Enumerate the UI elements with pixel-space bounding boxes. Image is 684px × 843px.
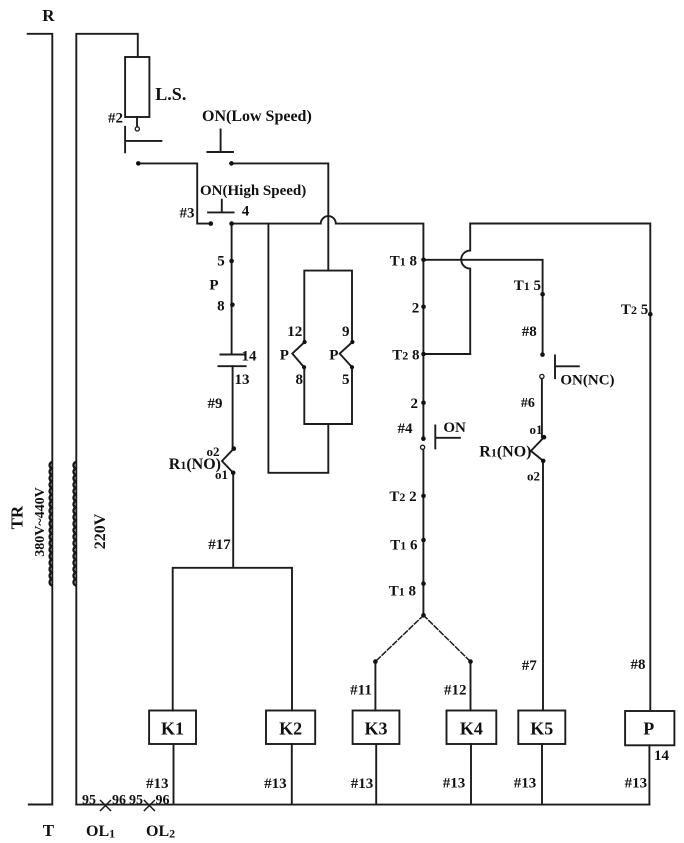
svg-text:P: P [329,348,338,364]
svg-text:8: 8 [295,372,303,388]
svg-text:TR: TR [8,505,27,529]
svg-text:T1 6: T1 6 [390,538,418,554]
svg-text:ON(NC): ON(NC) [560,373,614,389]
svg-text:220V: 220V [92,513,109,549]
svg-text:T1 8: T1 8 [389,584,416,600]
svg-text:R1(NO): R1(NO) [479,444,531,461]
svg-text:14: 14 [242,349,258,365]
svg-text:#8: #8 [631,657,646,673]
svg-text:#12: #12 [444,683,467,699]
svg-text:R1(NO): R1(NO) [169,456,221,473]
svg-text:T2 2: T2 2 [389,489,416,505]
svg-text:13: 13 [235,372,250,388]
svg-text:T: T [43,821,55,840]
svg-text:#8: #8 [522,324,537,340]
svg-text:#13: #13 [264,776,287,792]
svg-text:95: 95 [129,793,143,808]
svg-text:P: P [209,278,218,294]
svg-text:o1: o1 [530,422,543,437]
svg-text:#6: #6 [521,396,535,411]
svg-text:P: P [643,719,654,739]
svg-text:#4: #4 [398,421,414,437]
svg-text:#7: #7 [522,658,538,674]
svg-text:P: P [280,348,289,364]
svg-text:T1 5: T1 5 [514,278,541,294]
svg-text:#13: #13 [351,776,374,792]
svg-text:#13: #13 [146,776,169,792]
svg-text:ON: ON [443,420,466,436]
svg-text:#13: #13 [443,776,466,792]
svg-text:96: 96 [156,793,170,808]
svg-text:#2: #2 [108,111,123,127]
svg-text:#3: #3 [180,206,195,222]
svg-text:ON(Low Speed): ON(Low Speed) [202,108,312,125]
svg-text:K3: K3 [364,719,387,739]
svg-text:95: 95 [82,793,96,808]
svg-text:#11: #11 [350,683,372,699]
svg-text:14: 14 [654,748,670,764]
svg-text:o2: o2 [527,469,540,484]
svg-text:5: 5 [342,372,350,388]
svg-text:K1: K1 [161,719,184,739]
svg-text:#9: #9 [208,396,223,412]
svg-text:OL2: OL2 [146,823,175,841]
svg-text:96: 96 [112,793,126,808]
svg-text:#13: #13 [514,776,537,792]
svg-text:2: 2 [411,396,419,412]
svg-text:4: 4 [242,204,250,220]
svg-text:R: R [42,6,55,25]
svg-text:#17: #17 [208,537,231,553]
svg-text:2: 2 [412,301,420,317]
svg-text:8: 8 [217,299,225,315]
svg-text:T1 8: T1 8 [390,254,417,270]
svg-text:9: 9 [342,324,350,340]
svg-text:ON(High Speed): ON(High Speed) [200,183,306,199]
svg-text:5: 5 [217,254,225,270]
svg-text:K5: K5 [530,719,553,739]
svg-text:#13: #13 [625,776,648,792]
svg-text:OL1: OL1 [86,823,115,841]
svg-text:T2 8: T2 8 [392,348,419,364]
svg-text:T2 5: T2 5 [621,302,648,318]
svg-text:12: 12 [287,324,302,340]
svg-text:380V~440V: 380V~440V [33,487,48,557]
svg-text:L.S.: L.S. [155,84,186,104]
svg-text:K2: K2 [279,719,302,739]
svg-text:K4: K4 [460,719,483,739]
